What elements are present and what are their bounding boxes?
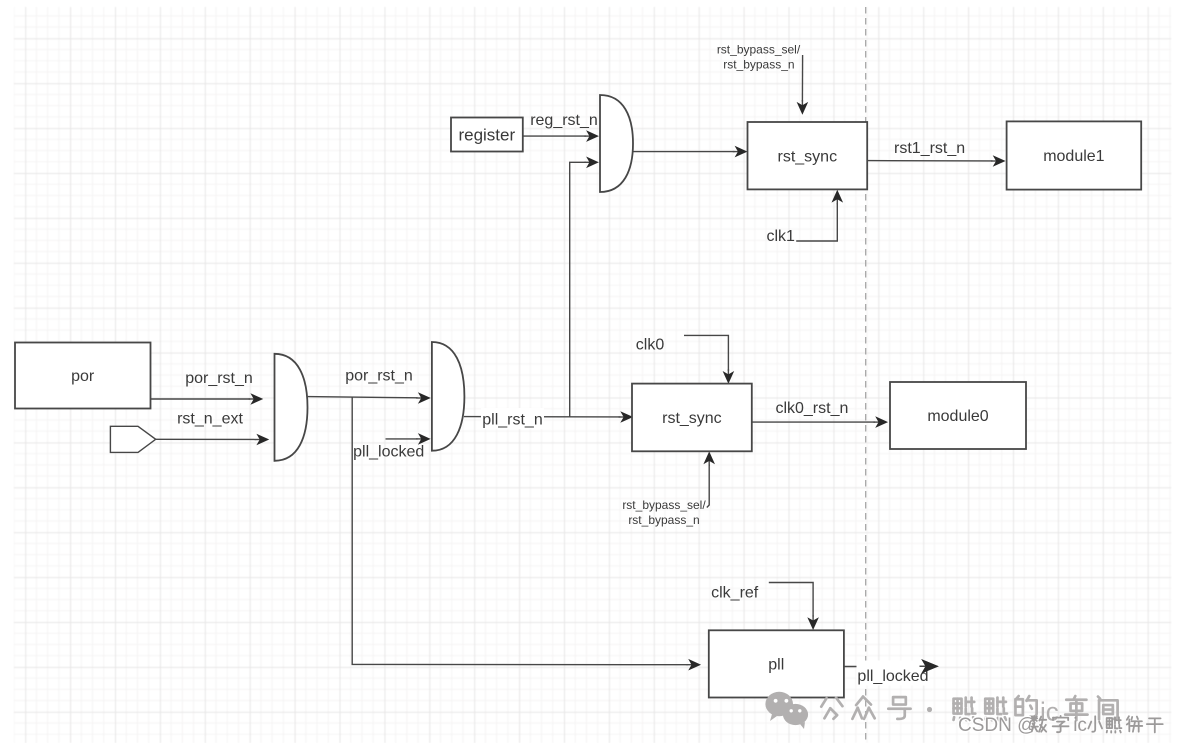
svg-text:por: por: [71, 368, 95, 385]
svg-text:pll_rst_n: pll_rst_n: [482, 412, 542, 429]
svg-text:clk_ref: clk_ref: [711, 584, 759, 601]
svg-text:clk1: clk1: [766, 228, 795, 245]
svg-text:module1: module1: [1043, 148, 1104, 165]
svg-text:rst_sync: rst_sync: [662, 410, 722, 427]
svg-text:pll_locked: pll_locked: [353, 444, 424, 461]
svg-text:clk0_rst_n: clk0_rst_n: [775, 400, 848, 417]
svg-text:rst_n_ext: rst_n_ext: [177, 410, 243, 427]
svg-text:clk0: clk0: [636, 337, 665, 354]
svg-text:pll_locked: pll_locked: [857, 668, 928, 685]
svg-text:por_rst_n: por_rst_n: [345, 368, 413, 385]
svg-text:register: register: [458, 126, 515, 145]
svg-text:rst_bypass_n: rst_bypass_n: [628, 513, 699, 527]
svg-text:por_rst_n: por_rst_n: [185, 370, 253, 387]
svg-text:rst_bypass_sel/: rst_bypass_sel/: [717, 42, 801, 56]
svg-text:rst1_rst_n: rst1_rst_n: [894, 140, 965, 157]
svg-text:rst_sync: rst_sync: [778, 148, 838, 165]
svg-text:ic: ic: [1073, 715, 1087, 736]
svg-text:reg_rst_n: reg_rst_n: [530, 112, 598, 129]
svg-text:rst_bypass_n: rst_bypass_n: [723, 57, 794, 71]
svg-text:pll: pll: [768, 657, 784, 674]
svg-text:module0: module0: [927, 408, 988, 425]
svg-text:rst_bypass_sel/: rst_bypass_sel/: [622, 498, 706, 512]
svg-text:CSDN @: CSDN @: [958, 715, 1036, 736]
